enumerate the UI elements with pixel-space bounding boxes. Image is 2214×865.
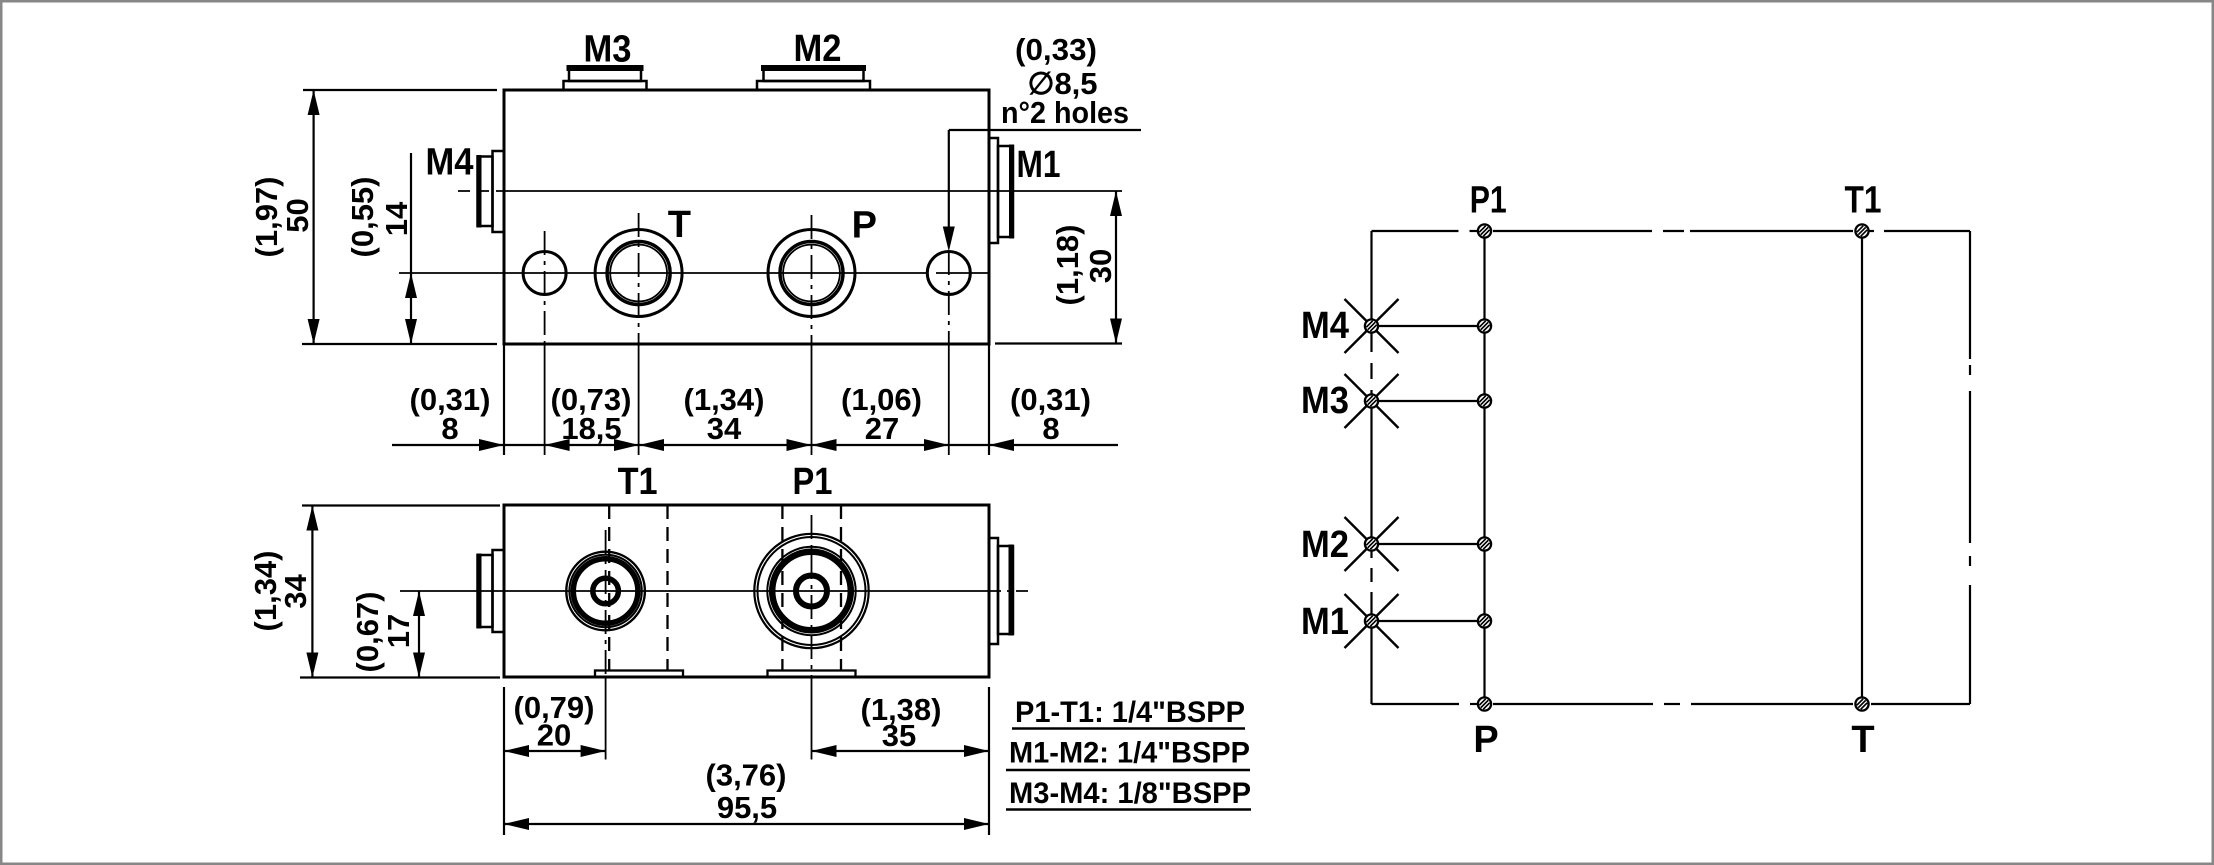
port M3 boss: [564, 68, 647, 90]
svg-text:(1,18): (1,18): [1050, 225, 1085, 306]
dimension 35: [812, 692, 990, 757]
label M3 schematic: [1301, 380, 1349, 422]
svg-text:M2: M2: [1301, 524, 1349, 566]
label P1 schematic: [1470, 180, 1507, 222]
svg-text:34: 34: [707, 411, 742, 446]
wire M4 to P1 net: [1372, 325, 1485, 327]
hidden hole T left edge: [608, 505, 610, 670]
svg-text:T: T: [668, 204, 691, 246]
node on P1 net at M4: [1478, 319, 1491, 332]
extension line right edge below top view: [988, 687, 990, 835]
chain arrowheads: [479, 439, 1014, 451]
label T1 between views: [618, 461, 658, 503]
node on P1 net at M2: [1478, 537, 1491, 550]
T spotface edge on front face: [595, 671, 683, 678]
svg-text:M3: M3: [584, 29, 632, 71]
svg-text:34: 34: [278, 574, 313, 609]
chain dim texts inch row: [410, 382, 1091, 417]
chain dim texts mm row: [441, 411, 1059, 446]
centerline vertical P1: [811, 515, 813, 760]
svg-text:P: P: [1473, 719, 1498, 761]
mounting hole left: [523, 252, 566, 295]
note (0,33): [1015, 32, 1097, 67]
plugged port X at M4: [1345, 299, 1399, 353]
svg-text:M1: M1: [1017, 144, 1061, 186]
label T: [668, 204, 691, 246]
extension line left edge below top view: [503, 687, 505, 835]
label M2 schematic: [1301, 524, 1349, 566]
net P1-P vertical: [1483, 231, 1485, 704]
svg-text:M2: M2: [794, 28, 842, 70]
wire M1 to P1 net: [1372, 620, 1485, 622]
node P: [1478, 697, 1491, 710]
boundary bottom chain line: [1372, 703, 1971, 705]
svg-text:M3: M3: [1301, 380, 1349, 422]
node on P1 net at M3: [1478, 394, 1491, 407]
centerline vertical P: [811, 215, 813, 455]
centerline vertical T1: [605, 530, 607, 760]
note diameter 8,5: [1027, 66, 1097, 101]
port T circles: [595, 230, 682, 317]
svg-text:P: P: [852, 205, 877, 247]
centerline M4-M1: [458, 190, 989, 192]
boundary top chain line: [1372, 230, 1971, 232]
mounting hole right: [927, 252, 970, 295]
svg-text:T1: T1: [1845, 180, 1882, 222]
port M1 boss top view: [989, 538, 1013, 644]
label M1: [1017, 144, 1061, 186]
centerline vertical T: [638, 213, 640, 455]
svg-text:M4: M4: [1301, 305, 1349, 347]
svg-text:n°2 holes: n°2 holes: [1001, 95, 1129, 130]
svg-text:(0,33): (0,33): [1015, 32, 1097, 67]
svg-text:95,5: 95,5: [717, 790, 777, 825]
boundary right chain line: [1969, 231, 1971, 704]
label M3: [584, 29, 632, 71]
dimension 20: [504, 690, 606, 757]
svg-text:(0,55): (0,55): [345, 177, 380, 258]
centerline vertical left hole: [544, 231, 546, 455]
svg-text:18,5: 18,5: [561, 411, 621, 446]
svg-text:P1-T1: 1/4"BSPP: P1-T1: 1/4"BSPP: [1015, 696, 1245, 729]
block body top view: [504, 505, 989, 677]
hidden hole T right edge: [666, 505, 668, 670]
node M4: [1365, 319, 1378, 332]
note n2 holes: [1001, 95, 1129, 130]
label T schematic: [1851, 719, 1874, 761]
extension line block left edge bottom: [503, 344, 505, 455]
node M3: [1365, 394, 1378, 407]
node T1: [1855, 224, 1868, 237]
extension line 30-dim top (y=191): [989, 190, 1122, 192]
label M2: [794, 28, 842, 70]
node M2: [1365, 537, 1378, 550]
extension line block right edge bottom: [988, 344, 990, 455]
svg-text:(3,76): (3,76): [706, 758, 787, 793]
plugged port X at M3: [1345, 374, 1399, 428]
label T1 schematic: [1845, 180, 1882, 222]
dimension 50 vertical: [249, 90, 497, 344]
svg-text:17: 17: [381, 614, 416, 648]
svg-text:8: 8: [441, 411, 458, 446]
svg-text:M4: M4: [426, 142, 474, 184]
svg-text:27: 27: [865, 411, 899, 446]
svg-text:(0,67): (0,67): [350, 592, 385, 673]
node T: [1855, 697, 1868, 710]
note P1-T1: [1012, 696, 1245, 729]
node on P1 net at M1: [1478, 614, 1491, 627]
note M1-M2: [1006, 737, 1250, 771]
svg-text:P1: P1: [1470, 180, 1507, 222]
P spotface edge on front face: [768, 671, 856, 678]
svg-text:50: 50: [280, 198, 315, 232]
leader n2 holes: [943, 130, 1141, 252]
port T1 circles: [566, 552, 645, 631]
dimension chain line: [392, 444, 1118, 446]
note M3-M4: [1006, 777, 1251, 810]
svg-text:(1,97): (1,97): [249, 177, 284, 258]
svg-text:35: 35: [882, 718, 916, 753]
boundary left chain line: [1370, 231, 1372, 704]
hidden hole P left edge: [781, 505, 783, 670]
label M1 schematic: [1301, 601, 1349, 643]
svg-text:30: 30: [1083, 249, 1118, 283]
dimension 95,5: [504, 758, 989, 831]
svg-text:M3-M4: 1/8"BSPP: M3-M4: 1/8"BSPP: [1009, 777, 1251, 810]
svg-text:P1: P1: [793, 461, 833, 503]
net T1-T vertical: [1861, 231, 1863, 704]
svg-text:M1: M1: [1301, 601, 1349, 643]
svg-text:8: 8: [1042, 411, 1059, 446]
svg-text:M1-M2: 1/4"BSPP: M1-M2: 1/4"BSPP: [1009, 737, 1250, 770]
svg-text:14: 14: [379, 201, 414, 236]
dimension 14 vertical: [345, 153, 417, 344]
svg-text:T1: T1: [618, 461, 658, 503]
svg-text:20: 20: [537, 718, 571, 753]
label M4 schematic: [1301, 305, 1349, 347]
hidden hole P right edge: [840, 505, 842, 670]
block body front view: [504, 90, 989, 344]
wire M2 to P1 net: [1372, 543, 1485, 545]
label P: [852, 205, 877, 247]
port M4 boss top view: [478, 550, 505, 632]
centerline T-P (y=273): [399, 272, 989, 274]
port M2 boss: [757, 68, 870, 90]
node M1: [1365, 614, 1378, 627]
wire M3 to P1 net: [1372, 400, 1485, 402]
centerline horizontal top view: [400, 590, 1032, 592]
port M4 boss: [478, 151, 505, 232]
port P1 circles: [754, 534, 868, 648]
label M4: [426, 142, 474, 184]
svg-text:T: T: [1851, 719, 1874, 761]
node P1: [1478, 224, 1491, 237]
plugged port X at M1: [1345, 594, 1399, 648]
port P circles: [768, 230, 855, 317]
label P schematic: [1473, 719, 1498, 761]
plugged port X at M2: [1345, 517, 1399, 571]
port M1 boss: [989, 138, 1013, 243]
dimension 30 vertical right: [995, 191, 1122, 344]
centerline vertical right hole: [948, 251, 950, 455]
label P1 between views: [793, 461, 833, 503]
dimension 17 vertical: [350, 591, 425, 678]
dimension 34 vertical: [248, 506, 500, 678]
